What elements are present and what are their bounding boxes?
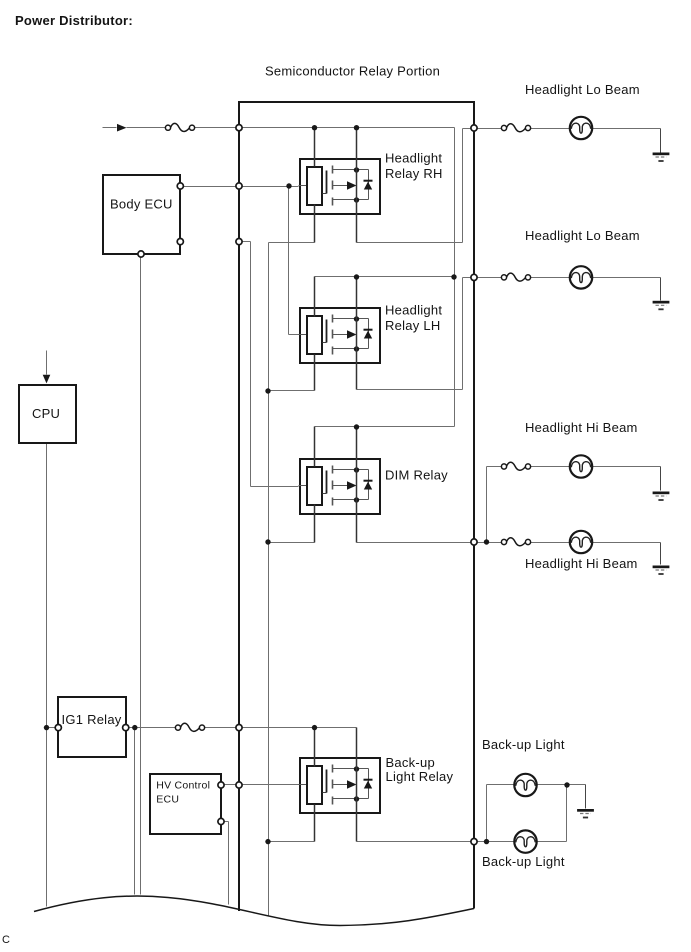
- svg-text:Semiconductor Relay Portion: Semiconductor Relay Portion: [265, 64, 440, 79]
- svg-text:Back-up Light: Back-up Light: [482, 854, 565, 869]
- svg-text:Back-up Light: Back-up Light: [482, 737, 565, 752]
- svg-text:Headlight: Headlight: [385, 150, 442, 165]
- svg-text:Power Distributor:: Power Distributor:: [15, 13, 133, 28]
- svg-text:Headlight Lo Beam: Headlight Lo Beam: [525, 228, 640, 243]
- svg-text:HV Control: HV Control: [156, 780, 210, 792]
- svg-text:Headlight Hi Beam: Headlight Hi Beam: [525, 556, 638, 571]
- svg-text:Back-up: Back-up: [386, 755, 435, 770]
- svg-text:Relay RH: Relay RH: [385, 166, 443, 181]
- svg-text:Headlight Lo Beam: Headlight Lo Beam: [525, 82, 640, 97]
- svg-text:ECU: ECU: [156, 794, 179, 806]
- svg-text:IG1 Relay: IG1 Relay: [62, 712, 122, 727]
- svg-text:DIM Relay: DIM Relay: [385, 468, 448, 483]
- svg-text:Relay LH: Relay LH: [385, 318, 440, 333]
- svg-text:Light Relay: Light Relay: [386, 769, 454, 784]
- svg-text:Body ECU: Body ECU: [110, 197, 173, 212]
- svg-text:Headlight Hi Beam: Headlight Hi Beam: [525, 420, 638, 435]
- svg-text:Headlight: Headlight: [385, 303, 442, 318]
- svg-text:C: C: [2, 934, 10, 946]
- svg-text:CPU: CPU: [32, 406, 60, 421]
